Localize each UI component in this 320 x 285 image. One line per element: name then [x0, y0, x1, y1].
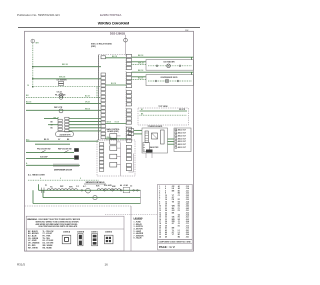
svg-text:L2: L2 [178, 232, 180, 234]
svg-text:19: 19 [159, 225, 161, 227]
svg-text:7: 7 [159, 199, 160, 201]
svg-text:CONN C: CONN C [91, 231, 99, 233]
svg-text:D2: D2 [178, 201, 180, 203]
svg-text:J2-3: J2-3 [186, 193, 189, 195]
svg-text:BU-18: BU-18 [85, 95, 90, 97]
svg-text:16: 16 [165, 201, 167, 203]
svg-text:8: 8 [159, 201, 160, 203]
svg-text:6: 6 [60, 178, 61, 180]
svg-text:H1: H1 [178, 217, 180, 219]
svg-text:J5-1: J5-1 [186, 210, 189, 212]
svg-text:CONN A: CONN A [63, 230, 71, 233]
svg-text:DR HTR: DR HTR [179, 109, 186, 111]
svg-text:10: 10 [165, 195, 167, 197]
svg-text:WH - WHITE: WH - WHITE [28, 247, 39, 249]
svg-text:20: 20 [159, 228, 161, 230]
svg-text:ICE MAKER: ICE MAKER [163, 61, 175, 64]
svg-text:21: 21 [159, 230, 161, 232]
svg-text:FRZ DOOR SW: FRZ DOOR SW [37, 149, 51, 151]
svg-text:M1: M1 [178, 234, 180, 236]
svg-text:ICE DISP: ICE DISP [40, 157, 48, 159]
svg-text:DEF HTR: DEF HTR [54, 107, 63, 109]
svg-text:DISPENSER DOOR: DISPENSER DOOR [54, 170, 73, 172]
svg-text:9: 9 [159, 204, 160, 206]
svg-text:F2: F2 [178, 210, 180, 212]
svg-text:J2-5: J2-5 [186, 195, 189, 197]
svg-text:PAGE : 1 / 2: PAGE : 1 / 2 [159, 245, 175, 249]
svg-text:ESEC 30 RELAY BOARD: ESEC 30 RELAY BOARD [91, 43, 113, 46]
svg-text:20: 20 [165, 206, 167, 208]
svg-text:18: 18 [159, 223, 161, 225]
svg-text:40W: 40W [112, 185, 116, 188]
svg-text:J8-2: J8-2 [186, 232, 189, 234]
svg-text:J6-1: J6-1 [186, 217, 189, 219]
svg-text:A.C. HINGE COVER: A.C. HINGE COVER [28, 174, 45, 177]
svg-text:16: 16 [159, 219, 161, 221]
svg-text:15: 15 [159, 217, 161, 219]
svg-text:22: 22 [159, 232, 161, 234]
svg-text:REF DOOR SW: REF DOOR SW [58, 149, 72, 151]
svg-text:J2-1: J2-1 [186, 190, 189, 192]
svg-text:BU-18: BU-18 [138, 78, 143, 80]
svg-text:12: 12 [165, 197, 167, 199]
svg-text:WH-18: WH-18 [59, 76, 66, 78]
svg-text:BW: BW [172, 219, 175, 221]
svg-text:RW: RW [172, 221, 175, 223]
svg-text:BU: BU [51, 128, 53, 130]
svg-text:10: 10 [159, 206, 161, 208]
svg-text:GY-18: GY-18 [115, 121, 119, 123]
svg-text:J1-2: J1-2 [186, 186, 189, 188]
svg-text:SENSOR DETAILS: SENSOR DETAILS [85, 181, 105, 184]
svg-text:BK-18: BK-18 [112, 56, 117, 58]
svg-text:W.H.: W.H. [96, 185, 100, 187]
svg-text:30: 30 [165, 217, 167, 219]
svg-text:12: 12 [159, 210, 161, 212]
svg-text:VT: VT [172, 195, 174, 197]
svg-text:10: 10 [27, 85, 29, 87]
svg-text:2: 2 [165, 186, 166, 188]
svg-text:Publication No. 5995702321 E: Publication No. 5995702321 EN [17, 13, 60, 17]
svg-text:HIGH TEMP AND MOVING PARTS OR: HIGH TEMP AND MOVING PARTS OR INSULATE. [39, 225, 79, 228]
svg-text:RB - RD/BK: RB - RD/BK [43, 247, 53, 249]
svg-text:B2: B2 [178, 193, 180, 195]
svg-text:26: 26 [165, 212, 167, 214]
svg-text:DEF: DEF [60, 186, 63, 188]
svg-text:J7-1: J7-1 [186, 223, 189, 225]
svg-text:AUGER MTR: AUGER MTR [60, 133, 72, 136]
svg-text:E23BC78IPS9A: E23BC78IPS9A [100, 13, 121, 17]
svg-text:(REF): (REF) [91, 46, 96, 48]
svg-text:J9-1: J9-1 [186, 236, 189, 238]
svg-text:BK-18: BK-18 [62, 64, 69, 66]
svg-text:3: 3 [159, 190, 160, 192]
svg-text:BK-18: BK-18 [44, 139, 49, 141]
svg-text:WIRING DIAGRAM: WIRING DIAGRAM [98, 21, 130, 25]
svg-text:R31/5: R31/5 [17, 263, 25, 267]
svg-text:WH-18: WH-18 [85, 108, 90, 110]
svg-text:J8-1: J8-1 [186, 230, 189, 232]
svg-text:16: 16 [105, 263, 109, 267]
svg-text:23: 23 [159, 234, 161, 236]
svg-text:BK-18: BK-18 [138, 70, 143, 72]
svg-text:5: 5 [159, 195, 160, 197]
svg-text:E1: E1 [178, 204, 180, 206]
svg-text:K1: K1 [178, 225, 180, 227]
svg-text:YL: YL [172, 230, 174, 232]
svg-text:D1: D1 [178, 199, 180, 201]
svg-text:J2: J2 [178, 223, 180, 225]
svg-text:H2: H2 [178, 219, 180, 221]
svg-text:OR-18: OR-18 [107, 121, 112, 123]
svg-text:17: 17 [159, 221, 161, 223]
svg-text:M2: M2 [178, 236, 180, 238]
svg-text:F1: F1 [178, 208, 180, 210]
svg-text:C1: C1 [178, 195, 180, 197]
svg-text:8: 8 [165, 193, 166, 195]
svg-text:8 - VALVE: 8 - VALVE [134, 237, 143, 240]
svg-text:J1: J1 [178, 221, 180, 223]
svg-text:L1: L1 [178, 230, 180, 232]
svg-text:13: 13 [159, 212, 161, 214]
svg-text:J3-1: J3-1 [186, 197, 189, 199]
svg-text:CONN D: CONN D [105, 231, 113, 233]
svg-text:18: 18 [165, 204, 167, 206]
svg-text:G2: G2 [178, 214, 180, 216]
svg-text:8: 8 [80, 178, 81, 180]
svg-text:J6-2: J6-2 [186, 219, 189, 221]
svg-text:CONN B: CONN B [77, 231, 85, 233]
svg-text:6: 6 [159, 197, 160, 199]
svg-text:BOARD (REF): BOARD (REF) [107, 130, 119, 133]
svg-text:W.H. 40W: W.H. 40W [104, 184, 112, 187]
svg-text:J5-2: J5-2 [186, 212, 189, 214]
svg-text:P1: P1 [45, 185, 47, 187]
svg-text:J7-5: J7-5 [186, 228, 189, 230]
svg-text:MAIN PWR: MAIN PWR [150, 146, 159, 149]
svg-text:28: 28 [165, 214, 167, 216]
svg-text:DISPENSER MOD: DISPENSER MOD [161, 77, 178, 79]
svg-text:DSS-12861B: DSS-12861B [110, 31, 125, 35]
svg-text:BU-18: BU-18 [111, 83, 116, 85]
svg-text:BK-18: BK-18 [138, 55, 143, 57]
svg-text:11: 11 [159, 208, 161, 210]
svg-text:C2: C2 [130, 186, 132, 188]
svg-text:36: 36 [165, 223, 167, 225]
svg-text:TOP VIEW: TOP VIEW [158, 106, 167, 108]
svg-text:6: 6 [165, 190, 166, 192]
svg-text:VT: VT [172, 234, 174, 236]
svg-text:1: 1 [159, 186, 160, 188]
svg-text:22: 22 [165, 208, 167, 210]
svg-text:J7-3: J7-3 [186, 225, 189, 227]
svg-text:WH-18: WH-18 [138, 63, 144, 65]
svg-text:J3-2: J3-2 [186, 199, 189, 201]
svg-text:2: 2 [159, 188, 160, 190]
svg-text:S.C.: S.C. [83, 186, 87, 188]
svg-text:32: 32 [165, 219, 167, 221]
svg-text:38: 38 [165, 225, 167, 227]
svg-text:E2: E2 [178, 206, 180, 208]
svg-text:B1: B1 [178, 190, 180, 192]
